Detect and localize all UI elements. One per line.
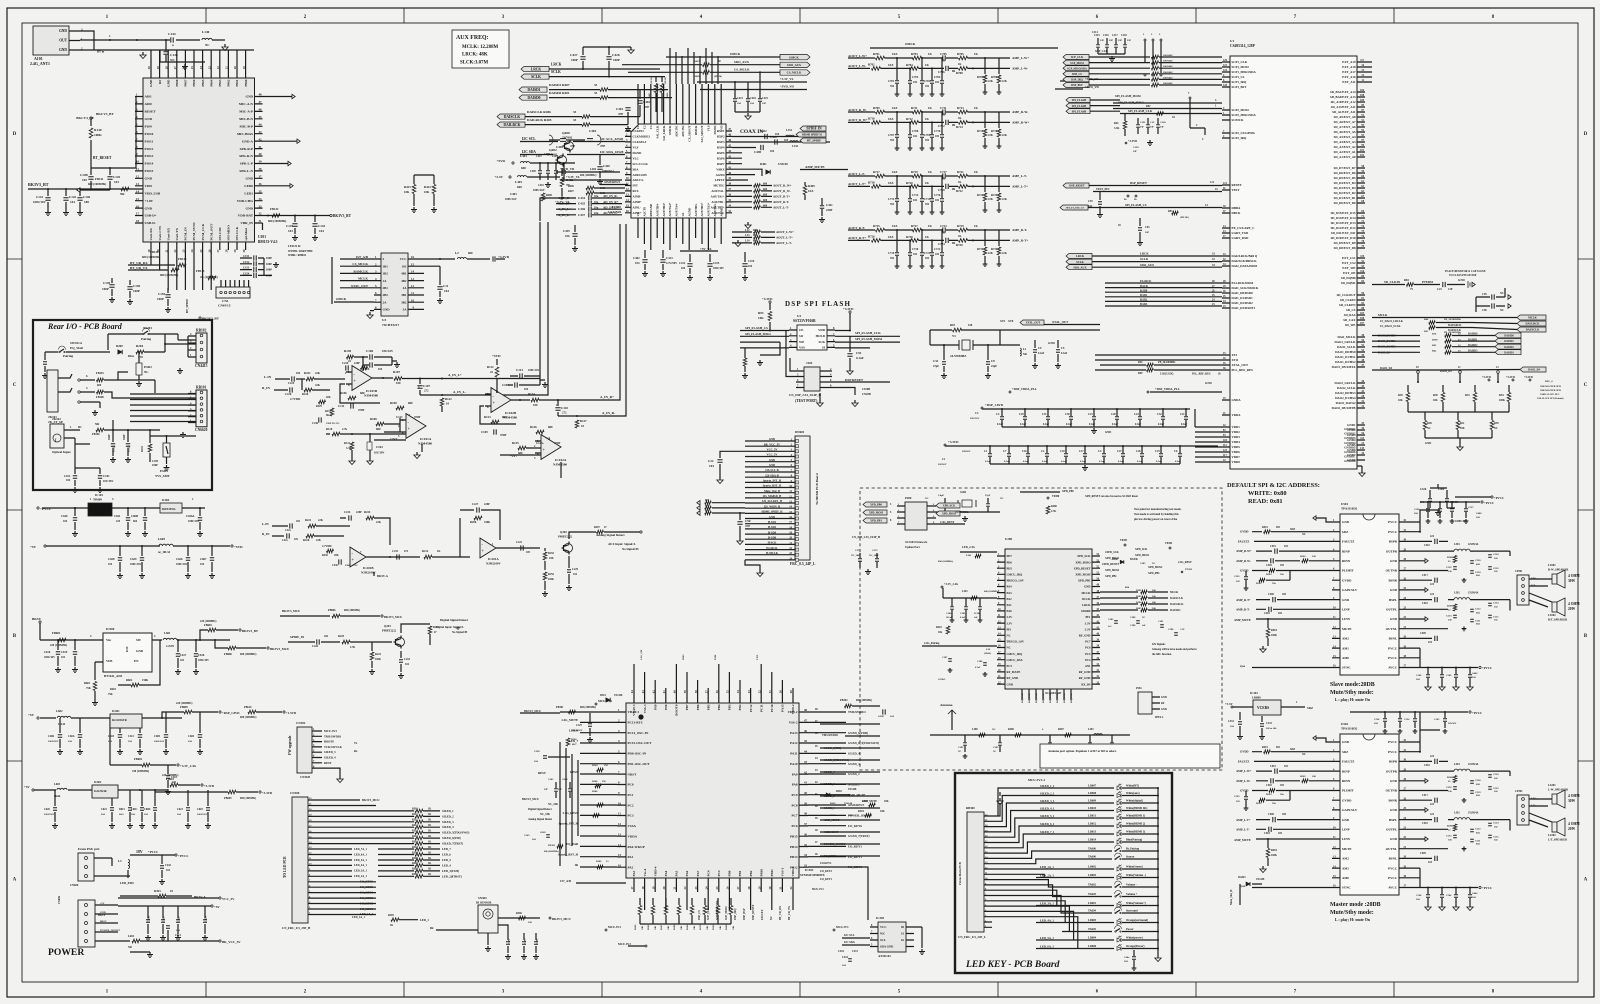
svg-text:C707: C707: [888, 134, 895, 137]
svg-text:C91: C91: [856, 351, 862, 355]
svg-text:PA10: PA10: [790, 762, 798, 766]
svg-text:104: 104: [319, 229, 324, 233]
svg-text:LED_1: LED_1: [420, 918, 429, 922]
svg-text:103: 103: [114, 180, 119, 184]
svg-text:NC_100P: NC_100P: [851, 554, 861, 557]
svg-text:VCC: VCC: [880, 925, 887, 929]
svg-text:C32: C32: [1157, 413, 1162, 416]
svg-text:VDDA: VDDA: [1232, 413, 1242, 417]
svg-text:SPI-CSB: SPI-CSB: [218, 227, 222, 241]
svg-text:PA0-WKUP: PA0-WKUP: [628, 845, 645, 849]
svg-text:ESD4: ESD4: [160, 469, 168, 473]
svg-text:680: 680: [408, 401, 413, 405]
svg-text:A_IN_L+: A_IN_L+: [558, 207, 571, 211]
svg-text:WDTBL: RSRNTHM: WDTBL: RSRNTHM: [288, 250, 313, 253]
svg-text:DSP RESET: DSP RESET: [845, 378, 864, 382]
svg-text:GND: GND: [59, 29, 67, 33]
svg-text:0.1uF: 0.1uF: [1175, 460, 1182, 463]
svg-text:VDD-CHG: VDD-CHG: [237, 199, 254, 203]
svg-text:C427: C427: [570, 53, 578, 57]
svg-text:GND: GND: [145, 206, 153, 210]
svg-text:C505: C505: [1234, 575, 1240, 578]
svg-text:VDD1: VDD1: [1232, 425, 1241, 429]
svg-text:S1: S1: [901, 932, 905, 936]
svg-text:R_IN: R_IN: [262, 386, 270, 390]
svg-text:1ST_A/B: 1ST_A/B: [356, 255, 369, 259]
svg-text:1M: 1M: [968, 323, 973, 327]
svg-text:XTAL_OUT: XTAL_OUT: [1232, 363, 1250, 367]
svg-text:BT_SPDIF: BT_SPDIF: [185, 299, 189, 313]
svg-text:LD612: LD612: [1088, 823, 1097, 826]
svg-text:R708: R708: [956, 71, 963, 75]
svg-text:Surround: Surround: [1126, 910, 1138, 913]
svg-text:G408: G408: [1476, 512, 1482, 515]
svg-text:R30: R30: [1433, 394, 1438, 397]
svg-text:LRCK: 48K: LRCK: 48K: [462, 53, 488, 58]
svg-text:C614: C614: [175, 934, 181, 937]
svg-text:LD607: LD607: [1088, 785, 1097, 788]
svg-text:R140: R140: [94, 128, 102, 132]
svg-text:42: 42: [804, 770, 808, 774]
svg-text:AMP_MUTE: AMP_MUTE: [848, 793, 865, 797]
svg-text:4.7K: 4.7K: [350, 646, 355, 649]
svg-text:OUTNR: OUTNR: [1385, 569, 1397, 573]
svg-text:30W: 30W: [1568, 579, 1576, 583]
svg-text:R710: R710: [868, 117, 875, 121]
svg-text:LD609: LD609: [1088, 800, 1097, 803]
svg-text:SCP_CLK: SCP_CLK: [1071, 56, 1084, 59]
svg-text:PA7: PA7: [696, 870, 700, 876]
svg-text:220P: 220P: [484, 503, 490, 506]
svg-text:AOUTA3+: AOUTA3+: [707, 202, 711, 216]
svg-text:C406: C406: [544, 153, 550, 156]
svg-text:+2V7: +2V7: [510, 454, 518, 458]
svg-text:10u: 10u: [594, 201, 599, 204]
svg-text:600: 600: [468, 251, 473, 255]
svg-text:SDZ: SDZ: [1342, 530, 1348, 534]
svg-text:100/0402: 100/0402: [1163, 76, 1173, 79]
svg-text:SD_A10/EXT_A12: SD_A10/EXT_A12: [1331, 100, 1356, 104]
svg-text:R212: R212: [422, 550, 429, 553]
svg-text:AMP_MUTE: AMP_MUTE: [862, 800, 877, 803]
svg-text:AM1: AM1: [1342, 866, 1349, 870]
svg-text:MUTE: MUTE: [1342, 847, 1352, 851]
svg-text:PC4: PC4: [706, 870, 710, 876]
svg-text:100P: 100P: [266, 269, 272, 272]
svg-text:AMP_R-W+: AMP_R-W+: [1012, 120, 1029, 124]
svg-text:100U/16V: 100U/16V: [528, 369, 539, 372]
svg-text:MCU-3V3: MCU-3V3: [836, 926, 849, 929]
svg-text:63: 63: [641, 690, 645, 694]
svg-text:GNDIO2: GNDIO2: [1344, 432, 1356, 436]
svg-text:GND-A: GND-A: [242, 139, 254, 143]
svg-text:P1014: P1014: [145, 162, 154, 166]
svg-text:FB_26/100MHz: FB_26/100MHz: [1444, 318, 1462, 321]
svg-text:White(BT): White(BT): [1126, 785, 1139, 788]
svg-text:TA201: TA201: [143, 326, 152, 330]
svg-text:14: 14: [618, 843, 622, 847]
svg-text:VSS-1: VSS-1: [781, 867, 785, 876]
svg-text:15UH/4A: 15UH/4A: [1468, 812, 1479, 815]
svg-text:LS501: LS501: [1548, 564, 1556, 567]
svg-text:SD_D1/EXT_D1: SD_D1/EXT_D1: [1334, 196, 1356, 200]
svg-text:GND: GND: [1105, 431, 1111, 434]
svg-text:1K: 1K: [428, 851, 431, 854]
svg-text:SCP1_CS: SCP1_CS: [1232, 75, 1245, 79]
svg-text:SDZ: SDZ: [1307, 706, 1313, 710]
svg-text:R92: R92: [1146, 105, 1151, 108]
svg-text:IC604: IC604: [162, 499, 170, 502]
svg-text:D615: D615: [119, 808, 125, 811]
svg-text:BOOT0: BOOT0: [675, 704, 679, 716]
svg-text:U1: U1: [1230, 39, 1234, 43]
svg-text:22: 22: [216, 66, 220, 70]
svg-text:IC201B: IC201B: [363, 566, 374, 570]
svg-text:AD_IN_R+: AD_IN_R+: [603, 200, 619, 204]
svg-text:CE: CE: [799, 328, 803, 332]
svg-text:GAIN/SLV: GAIN/SLV: [1342, 588, 1358, 592]
svg-text:1N4148: 1N4148: [844, 802, 853, 805]
svg-text:DSP_RESET: DSP_RESET: [1069, 185, 1084, 188]
svg-text:RF_GND: RF_GND: [1079, 676, 1091, 680]
svg-text:27pF: 27pF: [985, 494, 991, 497]
svg-text:36: 36: [259, 182, 263, 186]
svg-text:XPD_SCK: XPD_SCK: [943, 505, 956, 508]
svg-text:C603: C603: [197, 808, 203, 811]
svg-text:4A: 4A: [403, 286, 408, 290]
svg-text:1K5: 1K5: [888, 235, 894, 239]
svg-text:5.1K(5.11K): 5.1K(5.11K): [1160, 373, 1174, 376]
svg-text:104: 104: [770, 150, 775, 153]
svg-text:GND: GND: [1342, 598, 1350, 602]
svg-text:SPI-CLK: SPI-CLK: [235, 226, 239, 240]
svg-text:3.3V: 3.3V: [1007, 615, 1014, 619]
svg-text:Vin: Vin: [106, 638, 111, 642]
svg-text:22P: 22P: [558, 788, 562, 791]
svg-text:5K1: 5K1: [326, 414, 331, 417]
svg-text:PVCC: PVCC: [1388, 646, 1398, 650]
svg-text:P1011: P1011: [145, 139, 154, 143]
svg-text:FAULTZ: FAULTZ: [1342, 540, 1354, 544]
svg-text:56: 56: [715, 690, 719, 694]
svg-text:VCC_5V: VCC_5V: [222, 897, 235, 901]
svg-text:DAI2LRCK/BRI Q: DAI2LRCK/BRI Q: [1232, 254, 1258, 258]
svg-text:121: 121: [1210, 181, 1215, 184]
svg-text:R123: R123: [484, 415, 491, 419]
svg-text:CLKMODE3: CLKMODE3: [633, 135, 651, 139]
svg-text:RF_GND: RF_GND: [1063, 693, 1066, 703]
svg-text:33P: 33P: [1160, 126, 1164, 129]
svg-text:EXT_CS1: EXT_CS1: [1342, 256, 1356, 260]
svg-text:DAO1_D4: DAO1_D4: [1440, 370, 1452, 373]
svg-text:17: 17: [630, 886, 634, 890]
svg-text:CN_FRC_0.5_22P_L: CN_FRC_0.5_22P_L: [958, 935, 986, 939]
svg-text:10K: 10K: [549, 557, 554, 560]
svg-text:100U/16V: 100U/16V: [505, 198, 517, 201]
svg-text:LINP: LINP: [1342, 828, 1350, 832]
svg-text:11: 11: [411, 291, 414, 295]
svg-text:C423: C423: [737, 97, 743, 100]
svg-text:C236: C236: [332, 564, 338, 567]
svg-text:R112: R112: [487, 365, 494, 369]
svg-text:EXT_WE: EXT_WE: [1342, 266, 1355, 270]
svg-text:0.1uF: 0.1uF: [1181, 423, 1188, 426]
svg-text:220 (100MHz): 220 (100MHz): [176, 702, 192, 705]
svg-text:No Signal=H: No Signal=H: [622, 547, 639, 551]
svg-text:R423: R423: [404, 185, 411, 189]
svg-text:0R: 0R: [942, 232, 945, 235]
svg-text:104: 104: [63, 520, 68, 523]
svg-text:I2S Signals: I2S Signals: [1152, 643, 1166, 646]
svg-text:5.6pF: 5.6pF: [938, 494, 945, 497]
svg-text:C116: C116: [1103, 34, 1109, 37]
svg-text:AOUT_L-T-: AOUT_L-T-: [776, 241, 792, 245]
svg-text:PCM_SYNC: PCM_SYNC: [192, 221, 196, 240]
svg-text:OUTNR: OUTNR: [1385, 789, 1397, 793]
svg-text:U501: U501: [1341, 502, 1348, 506]
svg-text:REFGND: REFGND: [649, 203, 653, 217]
svg-text:C114: C114: [1092, 31, 1098, 34]
svg-text:AMP_R-T+: AMP_R-T+: [1012, 238, 1028, 242]
svg-text:RF: RF: [158, 80, 162, 85]
svg-text:R221: R221: [304, 371, 311, 375]
svg-text:SILED_2_1: SILED_2_1: [1040, 791, 1055, 795]
svg-text:GND: GND: [1161, 708, 1167, 711]
svg-text:White(HDMI 2): White(HDMI 2): [1126, 823, 1145, 826]
svg-text:27: 27: [173, 66, 177, 70]
svg-text:Q201: Q201: [384, 624, 391, 628]
svg-text:DAO1_D1/HS1: DAO1_D1/HS1: [1335, 355, 1356, 359]
svg-text:XPD_MOS2: XPD_MOS2: [1148, 566, 1163, 569]
svg-text:L2: L2: [455, 251, 459, 255]
svg-text:AT24C02: AT24C02: [878, 954, 891, 958]
svg-text:TPA3116D2: TPA3116D2: [1341, 727, 1358, 731]
svg-text:DAO1_D0/HS0: DAO1_D0/HS0: [1335, 350, 1356, 354]
svg-text:LED_6A_1: LED_6A_1: [354, 853, 367, 856]
svg-text:Mute/Stby mode:: Mute/Stby mode:: [1330, 910, 1374, 916]
svg-text:D401: D401: [760, 162, 767, 166]
svg-text:AOUTA1-: AOUTA1-: [711, 189, 724, 193]
svg-text:35: 35: [804, 843, 808, 847]
svg-text:L/W+: L/W+: [1531, 797, 1538, 800]
svg-text:C513: C513: [1446, 615, 1452, 618]
svg-text:PD6: PD6: [1007, 560, 1013, 564]
svg-text:Test point for manufacturing t: Test point for manufacturing test mode.: [1134, 508, 1182, 511]
svg-text:EXT_CS2: EXT_CS2: [1342, 261, 1356, 265]
svg-text:C234: C234: [342, 362, 349, 365]
svg-text:10: 10: [170, 889, 174, 893]
svg-text:P109: P109: [145, 125, 152, 129]
svg-text:49: 49: [789, 690, 793, 694]
svg-text:OUTNL: OUTNL: [1386, 847, 1397, 851]
svg-text:DAO2_DATA2: DAO2_DATA2: [1336, 401, 1356, 405]
svg-text:C723: C723: [940, 224, 947, 228]
svg-text:44: 44: [259, 123, 263, 127]
svg-text:SD_CLKOUT: SD_CLKOUT: [1337, 293, 1357, 297]
svg-text:SPDIF IN: SPDIF IN: [806, 127, 822, 131]
svg-text:C407: C407: [536, 155, 542, 158]
svg-text:DAI/SCLK: DAI/SCLK: [1448, 329, 1462, 332]
svg-text:I2C SCL: I2C SCL: [522, 137, 536, 141]
svg-text:FB141: FB141: [95, 177, 104, 181]
svg-text:GND: GND: [1048, 341, 1056, 345]
svg-text:C284: C284: [946, 612, 952, 615]
svg-text:C438: C438: [770, 135, 777, 139]
svg-text:AMP_L-T-: AMP_L-T-: [1236, 828, 1250, 832]
svg-text:272: 272: [424, 389, 429, 393]
svg-text:L12: L12: [745, 229, 750, 232]
svg-text:C236: C236: [312, 422, 319, 425]
svg-text:100P(NC): 100P(NC): [602, 170, 614, 173]
svg-text:55: 55: [726, 690, 730, 694]
svg-text:600 (100MHz): 600 (100MHz): [268, 219, 286, 223]
svg-text:LINN: LINN: [1342, 837, 1351, 841]
svg-text:FB100: FB100: [96, 396, 104, 399]
svg-text:C631: C631: [114, 514, 121, 518]
svg-text:DAO1_SCLK: DAO1_SCLK: [1337, 345, 1356, 349]
svg-text:C23: C23: [1437, 288, 1442, 291]
svg-text:R281: R281: [936, 626, 942, 629]
svg-text:1B1: 1B1: [383, 264, 389, 268]
svg-text:White(HDMI 4K): White(HDMI 4K): [1126, 807, 1147, 810]
svg-text:NC: NC: [144, 370, 149, 374]
svg-text:15: 15: [411, 262, 415, 266]
svg-text:C705: C705: [940, 52, 947, 56]
svg-text:SYNC: SYNC: [1342, 886, 1351, 890]
svg-text:GND: GND: [383, 308, 391, 312]
svg-text:10: 10: [581, 424, 585, 428]
svg-text:PC13-RTC: PC13-RTC: [628, 721, 644, 725]
svg-text:42528 REST: 42528 REST: [824, 831, 839, 834]
svg-text:C628: C628: [108, 557, 115, 561]
svg-text:AD0/CDIN: AD0/CDIN: [633, 173, 648, 177]
svg-text:C145: C145: [113, 175, 120, 179]
svg-text:AOUT_R-T+: AOUT_R-T+: [848, 236, 866, 240]
svg-text:PA13: PA13: [790, 731, 798, 735]
svg-text:FB145: FB145: [196, 269, 205, 273]
svg-text:SPI_FLASH: SPI_FLASH: [1072, 99, 1087, 102]
svg-text:NJM2100V: NJM2100V: [486, 562, 501, 566]
svg-text:R362: R362: [647, 924, 650, 930]
svg-text:FB142: FB142: [270, 207, 279, 211]
svg-text:C108: C108: [502, 383, 509, 387]
svg-text:UART_TXD: UART_TXD: [1232, 231, 1250, 235]
svg-text:the SRC function.: the SRC function.: [1152, 653, 1172, 656]
svg-text:IPEX-2: IPEX-2: [1155, 716, 1164, 719]
svg-text:SDZ: SDZ: [1290, 748, 1295, 751]
svg-text:LED1: LED1: [244, 191, 253, 195]
svg-text:NC_10K: NC_10K: [540, 813, 551, 816]
svg-text:RXP3: RXP3: [717, 140, 725, 144]
svg-text:AINL-: AINL-: [633, 206, 642, 210]
svg-text:RF_GND: RF_GND: [1007, 676, 1019, 680]
svg-text:100/0402: 100/0402: [1163, 82, 1173, 85]
svg-text:DSP_RESET: DSP_RESET: [1130, 181, 1147, 185]
svg-text:600: 600: [753, 234, 758, 237]
svg-text:1K5: 1K5: [892, 224, 898, 228]
svg-text:600 (100MHz): 600 (100MHz): [984, 590, 999, 593]
svg-text:600: 600: [705, 504, 710, 507]
svg-text:PC8: PC8: [791, 803, 797, 807]
svg-text:+5VD_VD: +5VD_VD: [560, 167, 575, 171]
svg-text:I2C SCL_42528: I2C SCL_42528: [600, 137, 623, 141]
svg-text:Source: Source: [1126, 856, 1135, 859]
svg-text:C506: C506: [1446, 674, 1452, 677]
svg-text:AOUT_L-W-: AOUT_L-W-: [848, 64, 866, 68]
svg-text:SD_BA1/EXT_A14: SD_BA1/EXT_A14: [1330, 90, 1356, 94]
svg-text:POWER_ON/OFF: POWER_ON/OFF: [100, 929, 121, 932]
svg-text:L-W_SPEAKER: L-W_SPEAKER: [1548, 789, 1569, 792]
svg-text:GND: GND: [1342, 740, 1350, 744]
svg-text:10K: 10K: [880, 810, 885, 813]
svg-text:VCC_5V: VCC_5V: [767, 449, 778, 452]
svg-text:C708: C708: [912, 130, 919, 133]
svg-text:C701: C701: [888, 80, 895, 83]
svg-text:2.4G_Pairing: 2.4G_Pairing: [924, 642, 940, 645]
svg-text:R713: R713: [957, 106, 964, 110]
svg-text:24.576MHz: 24.576MHz: [955, 511, 970, 514]
svg-text:30: 30: [147, 66, 151, 70]
svg-text:(FB 26): (FB 26): [650, 77, 653, 84]
svg-text:100K: 100K: [1499, 399, 1505, 402]
svg-text:1M: 1M: [604, 764, 608, 767]
svg-text:100P: 100P: [133, 289, 140, 293]
svg-text:SD_D14/EXT_D14: SD_D14/EXT_D14: [1331, 216, 1356, 220]
svg-text:C510: C510: [1422, 602, 1428, 605]
svg-text:White(Volume+): White(Volume+): [1126, 902, 1146, 905]
svg-text:10K: 10K: [680, 926, 683, 930]
svg-text:10P: 10P: [1145, 231, 1150, 234]
svg-text:AM2: AM2: [1342, 637, 1349, 641]
svg-text:I/O_KEY6: I/O_KEY6: [848, 824, 862, 828]
svg-text:R409: R409: [808, 184, 815, 188]
svg-text:1N4148: 1N4148: [1256, 878, 1265, 881]
svg-text:33: 33: [259, 204, 263, 208]
svg-text:U101: U101: [258, 235, 266, 239]
svg-text:S/LED_3: S/LED_3: [848, 762, 860, 766]
svg-text:100P: 100P: [571, 58, 578, 62]
svg-text:+5VD: +5VD: [496, 159, 505, 163]
svg-text:SPI_FLASH_MISO: SPI_FLASH_MISO: [745, 332, 771, 336]
svg-text:WRITE: 0x80: WRITE: 0x80: [1248, 490, 1287, 497]
svg-text:C412: C412: [679, 262, 686, 265]
svg-text:L601: L601: [164, 631, 171, 635]
svg-text:ADCIN2: ADCIN2: [681, 125, 685, 137]
svg-text:1K: 1K: [928, 52, 933, 56]
svg-text:SPDIF_IN: SPDIF_IN: [290, 635, 305, 639]
svg-text:VBAT-3: VBAT-3: [632, 704, 636, 716]
svg-text:OMCK: OMCK: [789, 55, 799, 59]
svg-text:100/0402: 100/0402: [1163, 60, 1173, 63]
svg-text:DAO1_D3: DAO1_D3: [1378, 351, 1391, 354]
svg-text:NR: NR: [1023, 353, 1027, 356]
svg-text:SCP1_BSY: SCP1_BSY: [1232, 85, 1248, 89]
svg-text:R363: R363: [712, 924, 715, 930]
svg-text:LINP: LINP: [1342, 608, 1350, 612]
svg-text:R727: R727: [911, 224, 918, 228]
svg-text:0.1uF: 0.1uF: [1099, 460, 1106, 463]
svg-text:SD_CAX: SD_CAX: [1343, 318, 1356, 322]
svg-text:FB603: FB603: [204, 624, 212, 627]
svg-text:C144: C144: [168, 32, 176, 36]
svg-text:TMS/SWDIO: TMS/SWDIO: [848, 710, 866, 714]
svg-text:10K: 10K: [667, 926, 670, 930]
svg-text:+PVCC: +PVCC: [1482, 886, 1492, 890]
svg-text:FB601: FB601: [52, 631, 61, 635]
svg-text:BT_UR_RX: BT_UR_RX: [779, 906, 782, 920]
svg-text:SD_CLKIN: SD_CLKIN: [1340, 298, 1356, 302]
svg-text:R285: R285: [1136, 607, 1142, 610]
